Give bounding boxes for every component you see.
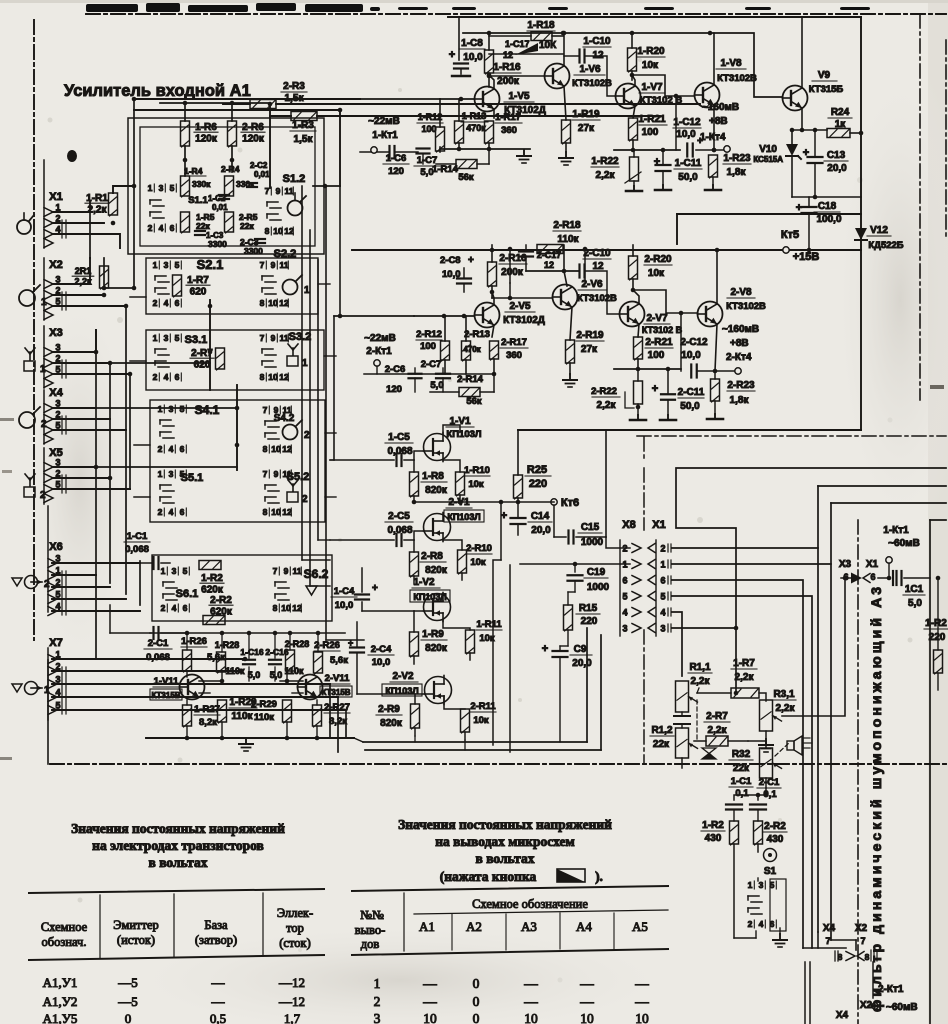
vertical bus x210 <box>209 300 211 390</box>
svg-text:1-R7: 1-R7 <box>733 658 755 669</box>
wire 1-C4 path <box>361 568 363 592</box>
transistor 1-V8 <box>695 83 720 108</box>
svg-text:X1: X1 <box>866 559 879 570</box>
svg-text:+15В: +15В <box>793 251 820 263</box>
svg-text:9: 9 <box>284 566 289 576</box>
svg-text:12: 12 <box>544 260 554 270</box>
svg-text:2-R8: 2-R8 <box>421 551 443 562</box>
wire 2V5 emitter <box>492 325 494 337</box>
svg-text:3: 3 <box>159 183 164 193</box>
svg-text:1: 1 <box>153 260 158 270</box>
wire ch2 emitter bus2 <box>614 368 681 370</box>
resistor 2-R29 <box>283 700 292 722</box>
svg-text:X7: X7 <box>49 637 62 649</box>
svg-text:1-R2: 1-R2 <box>702 820 724 831</box>
svg-text:X2: X2 <box>860 1000 873 1011</box>
svg-text:обознач.: обознач. <box>42 935 87 949</box>
svg-text:R1,1: R1,1 <box>689 662 711 673</box>
svg-text:1-R3: 1-R3 <box>292 120 314 131</box>
svg-text:9: 9 <box>271 260 276 270</box>
svg-text:360: 360 <box>506 350 522 361</box>
svg-text:6: 6 <box>180 507 185 517</box>
wire R1 top <box>113 186 134 193</box>
transistor 2-V7 <box>620 302 645 327</box>
svg-text:S1: S1 <box>764 866 777 877</box>
svg-text:~60мВ: ~60мВ <box>886 1002 918 1013</box>
antenna icon 1 <box>29 352 31 360</box>
wire X1 pin6 route down <box>672 580 803 948</box>
svg-text:100: 100 <box>420 341 436 352</box>
wire C10 ch2 path <box>586 271 619 314</box>
svg-text:1-R17: 1-R17 <box>495 112 521 123</box>
ink blob <box>67 150 77 162</box>
svg-text:на электродах транзисторов: на электродах транзисторов <box>92 838 264 853</box>
resistor 1-R5 <box>181 212 190 232</box>
bottom bus line 2 <box>365 749 601 751</box>
svg-text:(исток): (исток) <box>117 933 155 947</box>
left vertical bus c <box>109 363 111 583</box>
svg-text:R32: R32 <box>732 749 751 760</box>
svg-text:2: 2 <box>374 994 381 1009</box>
svg-text:КТ3102Д: КТ3102Д <box>503 315 545 326</box>
svg-text:2-R22: 2-R22 <box>591 386 617 397</box>
svg-text:4: 4 <box>169 444 174 454</box>
svg-text:1000: 1000 <box>587 582 610 593</box>
svg-text:2-R27: 2-R27 <box>324 702 350 713</box>
resistor 1-R10 <box>456 472 465 495</box>
frame dash-dot through connector <box>643 437 645 462</box>
svg-text:2-R28: 2-R28 <box>285 639 310 649</box>
svg-text:8: 8 <box>273 603 278 613</box>
svg-text:10,0: 10,0 <box>335 600 354 611</box>
left vertical bus b <box>95 330 97 659</box>
svg-text:1-R18: 1-R18 <box>527 20 555 31</box>
svg-text:+: + <box>652 383 658 395</box>
svg-text:—: — <box>634 994 649 1009</box>
capacitor C15 <box>553 505 555 537</box>
svg-text:R15: R15 <box>579 603 598 614</box>
ground R3.1 <box>765 739 767 745</box>
wire ch2 rail drop <box>491 240 493 250</box>
svg-text:1-V6: 1-V6 <box>579 64 601 75</box>
svg-text:Усилитель входной А1: Усилитель входной А1 <box>64 82 251 100</box>
ground 1-C11 <box>662 185 664 190</box>
lamp S1 <box>764 849 777 862</box>
svg-text:1: 1 <box>44 685 50 696</box>
wire V6 base <box>489 75 544 77</box>
ground 2-R23 <box>714 414 716 419</box>
resistor 1-R23 <box>709 155 718 177</box>
capacitor 1C1 A3 <box>895 571 897 585</box>
svg-text:360: 360 <box>501 125 517 136</box>
transistor 2-V6 <box>553 285 578 310</box>
resistor 2-R19 <box>566 340 575 363</box>
svg-text:2: 2 <box>40 490 46 501</box>
svg-text:10,0: 10,0 <box>676 129 696 140</box>
svg-text:дов: дов <box>361 937 380 951</box>
wire 1V2 gate <box>414 610 424 612</box>
extra verticals upper mesh <box>269 104 271 188</box>
svg-text:1-С5: 1-С5 <box>388 432 410 443</box>
wire ch1 emitter bus2 <box>614 149 680 151</box>
svg-text:4: 4 <box>169 507 174 517</box>
svg-text:6: 6 <box>170 223 175 233</box>
resistor 1-R27 <box>183 705 192 726</box>
svg-text:—: — <box>422 976 437 991</box>
svg-text:5: 5 <box>170 183 175 193</box>
svg-text:5: 5 <box>180 404 185 414</box>
svg-text:А3: А3 <box>521 919 537 934</box>
cable marks X1 <box>61 220 63 238</box>
svg-text:2-С5: 2-С5 <box>388 511 410 522</box>
svg-text:—5: —5 <box>117 975 138 990</box>
resistor 1-R29 <box>218 700 227 722</box>
svg-text:2-R23: 2-R23 <box>727 380 755 391</box>
wire 2V5 collector <box>492 292 494 305</box>
svg-text:КТ3102В: КТ3102В <box>726 301 766 312</box>
svg-text:7: 7 <box>860 936 865 946</box>
transistor 2-V2 fet <box>425 677 452 704</box>
wire V6 collector <box>563 33 565 66</box>
svg-text:4: 4 <box>164 372 169 382</box>
svg-text:S6.2: S6.2 <box>304 567 329 581</box>
svg-text:КТ315В: КТ315В <box>321 688 350 697</box>
svg-text:220: 220 <box>929 632 946 643</box>
svg-text:2-R3: 2-R3 <box>283 81 305 92</box>
svg-text:X8: X8 <box>622 519 635 531</box>
svg-text:0,068: 0,068 <box>125 544 149 555</box>
node line y197 <box>792 196 861 198</box>
vertical bus x326 <box>325 186 327 640</box>
svg-text:R3,1: R3,1 <box>773 689 795 700</box>
wire 1V1 drain top <box>443 425 460 434</box>
svg-text:1-R2: 1-R2 <box>925 618 947 629</box>
wire X1 pin4 route to R1.1 <box>672 612 682 676</box>
svg-text:~60мВ: ~60мВ <box>888 538 920 549</box>
svg-text:+: + <box>449 49 455 61</box>
pickup icon S2.2 <box>283 280 298 295</box>
svg-text:200к: 200к <box>501 267 524 278</box>
svg-text:X3: X3 <box>49 327 62 339</box>
table1 column rules <box>99 895 101 958</box>
wire ch2 C6 bus <box>414 368 416 374</box>
svg-text:2-R9: 2-R9 <box>378 704 400 715</box>
svg-text:1: 1 <box>374 976 381 991</box>
wire R6 bottoms <box>184 146 186 176</box>
amp box bottom <box>518 429 861 431</box>
svg-text:4: 4 <box>660 608 665 618</box>
wire V9 collector <box>801 17 803 88</box>
svg-text:2: 2 <box>302 494 308 505</box>
svg-text:9: 9 <box>274 405 279 415</box>
svg-text:А1,У5: А1,У5 <box>43 1011 78 1024</box>
svg-text:А2: А2 <box>466 919 482 934</box>
svg-text:2: 2 <box>55 354 60 364</box>
bottom bus line 1 <box>363 741 587 743</box>
wires bottom switch <box>757 878 759 881</box>
svg-text:1-R19: 1-R19 <box>572 109 600 120</box>
S3 group box <box>146 330 324 390</box>
wire caps C1 split <box>734 788 766 800</box>
left vertical bus d <box>125 306 127 594</box>
wire buses top-mid verticals <box>269 104 271 116</box>
tape out icon 2 <box>12 578 22 586</box>
svg-text:№№: №№ <box>360 908 384 922</box>
resistor 2-R4 <box>225 176 234 196</box>
svg-text:1000: 1000 <box>581 537 604 548</box>
resistor 1-R21 <box>629 118 638 140</box>
svg-text:—12: —12 <box>278 994 305 1009</box>
svg-text:2-R13: 2-R13 <box>464 329 490 340</box>
svg-text:5: 5 <box>55 365 60 375</box>
svg-text:А1: А1 <box>419 919 435 934</box>
svg-text:X2: X2 <box>49 259 62 271</box>
pickup icon 2 <box>19 412 35 428</box>
svg-text:КС515А: КС515А <box>753 155 783 164</box>
svg-text:10: 10 <box>271 507 281 517</box>
svg-text:S1.2: S1.2 <box>283 173 306 185</box>
svg-text:620к: 620к <box>201 585 224 596</box>
svg-text:2-R18: 2-R18 <box>553 220 581 231</box>
indicator wedges <box>702 748 716 759</box>
resistor 1-R4 <box>181 176 190 196</box>
svg-text:1: 1 <box>55 203 60 213</box>
left vertical bus a <box>89 212 91 258</box>
resistor 1-R6 <box>181 121 190 146</box>
capacitor 1-C8 <box>458 17 460 60</box>
S1 group box <box>128 118 324 254</box>
resistor 1-R9 <box>410 632 419 656</box>
svg-text:2-R19: 2-R19 <box>576 330 604 341</box>
svg-text:Схемное: Схемное <box>41 920 88 934</box>
wire V7 to V8 base <box>632 75 694 96</box>
svg-text:1: 1 <box>40 364 46 375</box>
svg-text:4: 4 <box>622 608 627 618</box>
svg-text:~160мВ: ~160мВ <box>702 102 739 113</box>
svg-text:5: 5 <box>622 592 627 602</box>
svg-text:2-V11: 2-V11 <box>325 673 351 684</box>
wire 2-C4 path <box>356 622 358 647</box>
svg-text:—5: —5 <box>117 994 138 1009</box>
svg-text:КП103Л: КП103Л <box>385 686 418 696</box>
cable marks X3 <box>61 360 63 378</box>
wire 2-R3 <box>276 103 700 105</box>
wire switch to ch1 base <box>134 98 360 100</box>
svg-text:тор: тор <box>286 921 304 935</box>
svg-text:56к: 56к <box>466 396 482 407</box>
wire bus y33 <box>463 32 710 34</box>
svg-text:1-Кт1: 1-Кт1 <box>372 130 398 141</box>
svg-text:1-R2: 1-R2 <box>201 573 223 584</box>
svg-text:КТ3102В: КТ3102В <box>572 78 612 89</box>
switch S1.1 contacts <box>150 199 161 201</box>
svg-text:11: 11 <box>280 333 289 343</box>
svg-text:1-V11: 1-V11 <box>154 676 180 687</box>
svg-text:2-С10: 2-С10 <box>583 248 611 259</box>
svg-text:R1,2: R1,2 <box>651 725 673 736</box>
svg-text:2,2к: 2,2к <box>735 672 755 683</box>
svg-text:10к: 10к <box>642 60 659 71</box>
wire V5 base <box>440 98 474 100</box>
svg-text:20,0: 20,0 <box>572 658 592 669</box>
svg-text:1-R16: 1-R16 <box>493 62 521 73</box>
svg-text:1-R28: 1-R28 <box>215 640 240 650</box>
svg-text:2: 2 <box>622 544 627 554</box>
svg-text:—: — <box>422 994 437 1009</box>
wire 2V8 emitter <box>715 324 717 371</box>
svg-text:+: + <box>372 583 378 594</box>
svg-text:3: 3 <box>55 275 60 285</box>
svg-text:А5: А5 <box>632 919 648 934</box>
table2 column rules <box>403 893 405 951</box>
transistor 1-V2 fet <box>424 594 451 621</box>
capacitor 1-C6 <box>388 146 390 158</box>
cable marks X4 <box>61 416 63 434</box>
svg-text:12: 12 <box>282 507 292 517</box>
resistor 2-R5 <box>225 212 234 232</box>
wire X4 pins <box>52 407 96 409</box>
svg-text:2-С12: 2-С12 <box>680 337 708 348</box>
svg-text:1: 1 <box>304 285 310 296</box>
svg-text:11: 11 <box>293 566 302 576</box>
svg-text:11: 11 <box>283 405 292 415</box>
wire X1 pin3 route <box>672 627 736 629</box>
wire 2kt1 <box>376 366 378 374</box>
svg-text:1: 1 <box>302 358 308 369</box>
svg-text:2,2к: 2,2к <box>597 400 617 411</box>
svg-text:1-R9: 1-R9 <box>422 629 444 640</box>
ground 2-R22 <box>637 415 639 420</box>
wire X6 pins <box>52 562 140 564</box>
svg-text:430: 430 <box>767 834 784 845</box>
svg-text:2: 2 <box>55 286 60 296</box>
svg-text:11: 11 <box>283 469 292 479</box>
svg-text:5,0: 5,0 <box>270 670 283 680</box>
svg-text:110к: 110к <box>254 712 274 723</box>
resistor 1-R3 <box>291 112 317 121</box>
svg-text:C18: C18 <box>818 201 837 212</box>
svg-text:1,8к: 1,8к <box>730 395 750 406</box>
svg-text:0: 0 <box>125 1011 132 1024</box>
svg-text:2-R2: 2-R2 <box>210 595 232 606</box>
wire ch2 R18 tap <box>584 249 586 283</box>
svg-text:3: 3 <box>169 404 174 414</box>
table2 rules <box>352 886 668 891</box>
wire bottom 740 drop <box>354 738 363 742</box>
svg-text:1-R27: 1-R27 <box>194 704 220 715</box>
resistor 2-R6 <box>228 121 237 146</box>
wire ch2 base long <box>334 315 414 317</box>
svg-text:3300: 3300 <box>208 239 227 249</box>
svg-text:10: 10 <box>580 1011 594 1024</box>
svg-text:9: 9 <box>276 186 281 196</box>
resistor 2-R17 <box>490 341 499 359</box>
svg-text:X4: X4 <box>49 387 63 399</box>
svg-text:6: 6 <box>183 603 188 613</box>
resistor 1-R7 <box>173 275 182 296</box>
svg-text:5: 5 <box>55 421 60 431</box>
svg-text:22к: 22к <box>733 763 750 774</box>
svg-text:22к: 22к <box>653 739 670 750</box>
resistor 2-R11 <box>461 709 470 732</box>
svg-text:V9: V9 <box>818 70 831 81</box>
svg-text:4: 4 <box>164 298 169 308</box>
resistor 1-R17 <box>485 121 494 143</box>
svg-text:Кт6: Кт6 <box>561 497 579 509</box>
wire R18 node <box>489 35 531 37</box>
svg-text:+: + <box>654 156 660 168</box>
svg-text:5: 5 <box>183 566 188 576</box>
wire V8 emitter <box>713 105 715 150</box>
wire V7 collector <box>632 75 635 86</box>
svg-text:5,0: 5,0 <box>430 380 443 391</box>
svg-text:2: 2 <box>158 507 163 517</box>
wire X1 pins to switch bus <box>52 222 104 224</box>
svg-text:120: 120 <box>386 384 402 395</box>
svg-text:7: 7 <box>263 469 268 479</box>
wire 1-R3 <box>317 115 660 117</box>
wires V11 section <box>186 633 188 650</box>
svg-text:120к: 120к <box>242 134 265 145</box>
wire 2V8 collector <box>716 250 718 304</box>
svg-text:0: 0 <box>473 976 480 991</box>
svg-text:1-R10: 1-R10 <box>464 465 490 476</box>
transistor 2-V11 <box>298 675 323 700</box>
svg-text:2: 2 <box>161 603 166 613</box>
svg-text:—: — <box>523 994 538 1009</box>
svg-text:3: 3 <box>55 458 60 468</box>
svg-text:—: — <box>634 976 649 991</box>
svg-text:1: 1 <box>158 469 163 479</box>
svg-text:0,5: 0,5 <box>210 1011 226 1024</box>
svg-text:2R1: 2R1 <box>75 266 92 276</box>
wire X1 pin1 to R1 <box>52 201 90 212</box>
svg-text:2-R12: 2-R12 <box>416 329 442 340</box>
svg-text:+: + <box>542 643 548 655</box>
svg-text:5,0: 5,0 <box>908 598 922 609</box>
svg-text:S3.2: S3.2 <box>289 331 312 343</box>
resistor 1-R8 <box>410 472 419 496</box>
wire 2V6 base <box>492 297 552 299</box>
svg-text:6: 6 <box>870 572 875 582</box>
svg-text:1-V2: 1-V2 <box>413 577 435 588</box>
svg-text:120: 120 <box>388 166 404 177</box>
svg-text:1: 1 <box>158 404 163 414</box>
svg-text:8: 8 <box>865 952 870 962</box>
svg-text:2-R14: 2-R14 <box>457 374 484 385</box>
resistor 2-R21 <box>634 337 643 359</box>
svg-text:2-R20: 2-R20 <box>644 254 672 265</box>
resistor 2-R16 <box>488 262 497 286</box>
A3 block border dash-dot <box>857 520 859 1024</box>
svg-text:0,1: 0,1 <box>735 788 749 799</box>
amp box right edge <box>860 17 862 430</box>
svg-text:1-R8: 1-R8 <box>422 471 444 482</box>
resistor 2-R20 <box>629 256 638 279</box>
wire long vertical x501 <box>500 502 502 560</box>
capacitor 2-C1 input <box>152 627 154 639</box>
svg-text:3: 3 <box>374 1011 381 1024</box>
terminal Kt6 <box>551 499 557 505</box>
svg-text:1-R13: 1-R13 <box>462 111 487 121</box>
resistor 2-R23 <box>711 379 720 401</box>
svg-text:3: 3 <box>759 880 764 890</box>
ground 1-R23 <box>712 185 714 190</box>
capacitor C19 <box>574 564 576 572</box>
svg-text:2-С17: 2-С17 <box>537 250 562 260</box>
svg-text:1-R26: 1-R26 <box>181 636 207 647</box>
svg-text:56к: 56к <box>458 172 474 183</box>
